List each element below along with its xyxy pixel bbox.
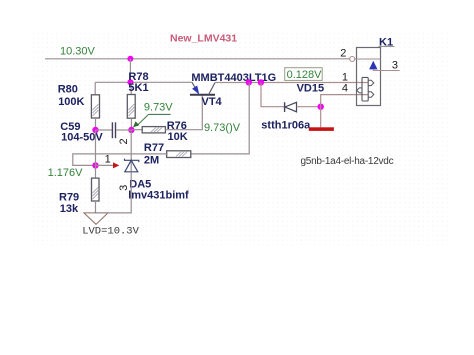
wire R78 top lead [130,82,132,94]
svg-text:104-50V: 104-50V [61,131,103,143]
wire 10.30V rail [45,58,350,60]
svg-text:1: 1 [342,71,348,83]
node R77 feedback junction [246,79,252,85]
svg-text:100K: 100K [58,96,84,108]
wire C59 right lead [116,129,131,131]
ground [84,213,108,224]
svg-text:g5nb-1a4-el-ha-12vdc: g5nb-1a4-el-ha-12vdc [301,156,394,167]
svg-text:4: 4 [342,83,348,95]
svg-text:2: 2 [118,138,130,144]
node VD15 branch junction [258,79,264,85]
wire DA5 ref lead [96,164,114,166]
svg-text:LVD=10.3V: LVD=10.3V [82,226,139,238]
svg-text:5K1: 5K1 [128,82,148,94]
wire feedback column [95,130,97,178]
wire to power bar [320,107,322,128]
node emitter net junction [127,79,133,85]
capacitor C59 [112,122,115,138]
node divider junction [128,127,134,133]
svg-text:lmv431bimf: lmv431bimf [128,190,189,202]
shunt regulator DA5 [125,159,139,172]
svg-text:3: 3 [118,185,130,191]
node rail junction [127,56,133,62]
wire R80 top lead [94,82,96,95]
svg-text:DA5: DA5 [129,178,151,190]
pin 2 circle [350,57,355,62]
relay coil element [357,77,374,101]
wire R79 bottom lead [95,201,97,213]
wire rail drop to emitter net [129,59,131,83]
resistor R77 [167,151,191,158]
wire VD15 to junction [297,106,321,108]
svg-text:10.30V: 10.30V [60,46,96,58]
K1 underline [379,45,395,47]
wire R76 left lead [131,129,142,131]
svg-text:1: 1 [105,154,111,166]
svg-text:VT4: VT4 [202,96,223,108]
wire pin4 riser [321,95,368,107]
svg-text:0.128V: 0.128V [287,69,323,81]
svg-text:2M: 2M [144,154,159,166]
resistor R80 [91,95,99,118]
wire R77 left wrap [73,154,167,166]
pin 3 arrow [369,61,377,70]
wire C59 left lead [96,129,112,131]
wire pin2 internal [355,58,381,60]
wire pin3 stub [373,69,399,70]
svg-text:2: 2 [340,48,346,60]
wire R77 right riser [191,82,249,153]
wire R78 bottom lead [130,118,132,130]
svg-text:1.176V: 1.176V [48,167,84,179]
svg-text:R77: R77 [144,142,164,154]
svg-text:New_LMV431: New_LMV431 [170,33,237,45]
svg-text:VD15: VD15 [297,83,325,95]
wire R76 to base [165,95,202,130]
diode VD15 [285,102,297,112]
power bar [309,127,334,131]
wire R80 bottom lead [95,118,97,130]
wire emitter net horizontal [95,81,192,83]
probe box 0.128V [285,68,323,81]
svg-text:stth1r06a: stth1r06a [261,119,311,131]
svg-text:9.73V: 9.73V [144,102,173,114]
resistor R79 [92,178,100,201]
resistor R78 [127,95,135,119]
probe arrow 9.73V [133,114,171,127]
node DA5 ref junction [92,162,98,168]
svg-text:10K: 10K [168,131,188,143]
ref arrow DA5 [113,162,119,168]
wire DA5 anode lead [96,172,131,213]
svg-text:3: 3 [392,59,398,71]
node feedback left junction [92,127,98,133]
wire DA5 cathode lead [130,130,132,172]
node VD15 cathode junction [318,104,324,110]
svg-text:R80: R80 [58,84,78,96]
wire VD15 branch riser [261,82,285,106]
svg-text:9.73()V: 9.73()V [204,122,241,134]
wire collector net [215,82,368,84]
resistor R76 [142,127,165,133]
svg-text:13k: 13k [60,203,79,215]
relay K1 box [357,48,381,106]
svg-text:R79: R79 [59,191,79,203]
transistor VT4 [190,82,215,95]
